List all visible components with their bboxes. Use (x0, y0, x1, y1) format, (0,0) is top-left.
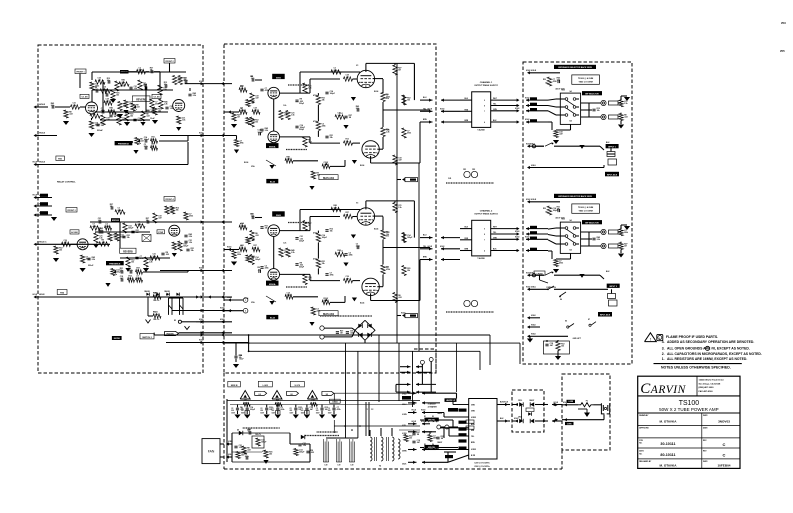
svg-text:U-970: U-970 (295, 385, 301, 387)
svg-text:2.2k: 2.2k (149, 262, 153, 264)
svg-text:C2: C2 (241, 408, 243, 410)
svg-text:33k: 33k (241, 455, 244, 457)
svg-text:220k: 220k (237, 254, 241, 256)
svg-text:NO.: NO. (639, 453, 643, 455)
svg-text:1.5k: 1.5k (398, 207, 402, 209)
svg-text:15k: 15k (545, 212, 548, 214)
svg-text:220: 220 (260, 410, 263, 412)
svg-text:NO.: NO. (639, 443, 643, 445)
svg-text:12340 World Trade Drive: 12340 World Trade Drive (699, 379, 725, 382)
svg-text:CHANNEL 2: CHANNEL 2 (480, 210, 493, 213)
svg-text:HOLE: HOLE (227, 297, 231, 299)
svg-text:6.3V: 6.3V (324, 465, 327, 467)
svg-text:6 BLU: 6 BLU (402, 404, 406, 406)
svg-text:1.5k: 1.5k (303, 445, 307, 447)
svg-text:CARVIN: CARVIN (640, 381, 686, 397)
svg-text:100pF: 100pF (330, 93, 336, 95)
svg-text:9: 9 (484, 100, 485, 102)
svg-text:FLAME PROOF IF USED PARTS.: FLAME PROOF IF USED PARTS. (666, 335, 718, 339)
svg-text:1.5k: 1.5k (291, 115, 295, 117)
svg-text:220: 220 (301, 410, 304, 412)
svg-text:S4: S4 (569, 120, 571, 123)
svg-text:FRONT 3: FRONT 3 (67, 210, 75, 212)
svg-text:100pF: 100pF (299, 452, 305, 454)
svg-text:C2: C2 (301, 408, 303, 410)
svg-text:ALL RESISTORS ARE 16MW, EXCEPT: ALL RESISTORS ARE 16MW, EXCEPT AS NOTED. (667, 357, 747, 361)
svg-text:EL34: EL34 (244, 161, 248, 164)
svg-text:HOLE: HOLE (227, 247, 231, 249)
svg-text:HOLE: HOLE (504, 402, 508, 404)
svg-text:100k 1%: 100k 1% (153, 319, 160, 321)
svg-text:220pF: 220pF (299, 129, 304, 131)
svg-text:33k: 33k (191, 250, 194, 252)
svg-text:HOLE: HOLE (39, 133, 46, 135)
svg-text:R50: R50 (543, 208, 546, 210)
svg-text:HOLE C: HOLE C (39, 241, 47, 243)
svg-text:100pF: 100pF (250, 409, 256, 411)
svg-text:8: 8 (484, 106, 485, 108)
svg-text:IMPEDANCE SELECTOR BACK VIEW: IMPEDANCE SELECTOR BACK VIEW (558, 195, 592, 198)
svg-text:6 BRN: 6 BRN (402, 451, 407, 453)
svg-text:220: 220 (328, 410, 331, 412)
svg-text:10k: 10k (409, 438, 412, 440)
svg-text:APPROVED: APPROVED (639, 427, 649, 430)
svg-text:5965: 5965 (276, 215, 282, 217)
svg-text:33k: 33k (330, 137, 333, 139)
svg-text:DRAWN BY: DRAWN BY (639, 414, 649, 417)
svg-text:220pF: 220pF (299, 267, 304, 269)
svg-text:10k: 10k (59, 250, 62, 252)
svg-text:100pF: 100pF (261, 442, 267, 444)
svg-text:ALL CAPACITORS IN MICROFARADS,: ALL CAPACITORS IN MICROFARADS, EXCEPT AS… (667, 352, 762, 356)
svg-text:HOLE: HOLE (421, 421, 425, 423)
svg-text:San Diego, CA 92128: San Diego, CA 92128 (699, 382, 721, 385)
svg-text:6 BLK: 6 BLK (531, 70, 537, 72)
svg-text:L-905: L-905 (263, 385, 269, 387)
svg-text:100k TL: 100k TL (255, 434, 261, 436)
svg-text:TS50: TS50 (561, 219, 565, 221)
svg-text:CR1: CR1 (463, 169, 466, 171)
svg-text:1.5k: 1.5k (182, 120, 186, 122)
svg-text:POW: POW (158, 232, 163, 234)
svg-text:GRN YEL: GRN YEL (428, 447, 435, 449)
svg-text:HOLE: HOLE (33, 294, 37, 296)
svg-text:V3: V3 (356, 65, 358, 67)
svg-text:HOLE: HOLE (199, 340, 203, 342)
svg-text:C26: C26 (247, 430, 250, 432)
svg-text:10k: 10k (330, 231, 333, 233)
svg-text:#53: #53 (781, 21, 786, 25)
svg-text:6 PUSH: 6 PUSH (536, 273, 543, 275)
svg-text:TS100 @ 4 OHM: TS100 @ 4 OHM (578, 206, 594, 209)
svg-text:6.3V: 6.3V (337, 465, 340, 467)
svg-text:CHANNEL 1: CHANNEL 1 (480, 81, 493, 84)
svg-text:470k: 470k (313, 94, 317, 97)
svg-text:GN03: GN03 (332, 401, 338, 403)
svg-text:6 GRN: 6 GRN (567, 423, 572, 425)
svg-text:HOLE: HOLE (220, 308, 224, 310)
svg-text:2.2k: 2.2k (265, 130, 269, 132)
svg-text:HOLE: HOLE (412, 410, 416, 412)
svg-text:R58: R58 (386, 232, 389, 234)
svg-text:100pF: 100pF (183, 246, 189, 248)
svg-text:INPUT 1: INPUT 1 (608, 147, 617, 149)
svg-text:1.: 1. (662, 357, 665, 361)
svg-text:M. OTAVKA: M. OTAVKA (660, 464, 678, 468)
svg-text:220k: 220k (265, 268, 269, 270)
svg-text:10k: 10k (131, 262, 134, 264)
svg-text:CH1: CH1 (448, 178, 451, 180)
svg-text:RELAY CONTROL: RELAY CONTROL (57, 181, 76, 184)
svg-text:7: 7 (484, 239, 485, 241)
svg-text:HOLE: HOLE (440, 246, 444, 248)
svg-text:R49: R49 (153, 292, 156, 295)
svg-text:.047: .047 (255, 97, 259, 100)
svg-text:GRN YEL: GRN YEL (428, 420, 435, 422)
svg-text:220k: 220k (280, 409, 284, 411)
svg-text:10k: 10k (255, 122, 258, 124)
svg-text:6550A: 6550A (269, 283, 276, 286)
svg-text:HOLE: HOLE (440, 109, 444, 111)
svg-text:F1: F1 (586, 400, 588, 402)
svg-text:C2: C2 (272, 408, 274, 410)
svg-text:470k: 470k (386, 268, 390, 271)
svg-text:.022: .022 (398, 297, 402, 299)
svg-text:8: 8 (484, 234, 485, 236)
svg-text:HEATER W: HEATER W (446, 399, 455, 402)
svg-text:NOTES UNLESS OTHERWISE SPECIFI: NOTES UNLESS OTHERWISE SPECIFIED. (661, 366, 731, 370)
svg-text:YEL: YEL (493, 104, 496, 106)
svg-text:30-10111: 30-10111 (660, 442, 675, 446)
svg-text:1.5k: 1.5k (170, 108, 174, 110)
svg-text:50W X 2 TUBE POWER AMP: 50W X 2 TUBE POWER AMP (659, 407, 718, 412)
svg-text:TS50: TS50 (561, 90, 565, 92)
svg-text:EL34: EL34 (360, 302, 364, 305)
svg-text:3.: 3. (662, 347, 665, 351)
svg-text:6 RED: 6 RED (471, 417, 477, 419)
svg-text:470k: 470k (330, 274, 334, 277)
svg-text:6 GRN: 6 GRN (402, 414, 407, 416)
svg-text:S4: S4 (569, 90, 571, 93)
svg-text:C1.5S: C1.5S (153, 97, 160, 99)
svg-text:EL34: EL34 (270, 181, 276, 184)
svg-text:HOLE: HOLE (526, 70, 530, 72)
svg-text:220k: 220k (322, 126, 326, 128)
svg-text:HOLE: HOLE (525, 97, 529, 99)
svg-text:470k: 470k (407, 132, 411, 135)
svg-text:6 BLK: 6 BLK (530, 273, 536, 275)
svg-text:HOLE: HOLE (199, 319, 203, 321)
svg-text:2.2k: 2.2k (386, 132, 390, 134)
svg-text:470k: 470k (265, 89, 269, 92)
svg-text:10FEB04: 10FEB04 (717, 464, 730, 468)
svg-text:1.5k: 1.5k (189, 242, 193, 244)
svg-text:T-A2058: T-A2058 (477, 128, 484, 131)
svg-text:EL34: EL34 (270, 317, 276, 320)
svg-text:.047: .047 (398, 159, 402, 162)
svg-text:.022: .022 (166, 254, 170, 256)
svg-text:220pF: 220pF (299, 241, 304, 243)
svg-text:6550A: 6550A (269, 145, 276, 148)
svg-text:BIAS ADJ: BIAS ADJ (323, 177, 335, 180)
svg-text:2: 2 (245, 311, 246, 313)
svg-text:TS100 @ 4 OHM: TS100 @ 4 OHM (578, 77, 594, 80)
svg-text:33k: 33k (130, 116, 133, 118)
svg-text:.022: .022 (311, 452, 315, 454)
svg-text:1: 1 (245, 300, 246, 302)
svg-text:ADDED AS SECONDARY OPERATION A: ADDED AS SECONDARY OPERATION ARE DENOTED… (667, 340, 754, 344)
svg-text:230V @ 1% 50THz: 230V @ 1% 50THz (474, 466, 489, 468)
svg-text:HOLE: HOLE (33, 195, 37, 197)
svg-text:OUTPUT TRANS 30-WXYZ: OUTPUT TRANS 30-WXYZ (474, 213, 498, 216)
svg-text:M. OTAVKA: M. OTAVKA (660, 420, 678, 424)
svg-text:R66: R66 (240, 224, 243, 226)
svg-text:2.2k: 2.2k (193, 95, 197, 97)
svg-text:INPUT 2: INPUT 2 (609, 286, 618, 288)
svg-text:1.2k: 1.2k (283, 243, 286, 245)
svg-text:PRESENCE: PRESENCE (118, 144, 130, 146)
svg-text:33k: 33k (269, 454, 272, 456)
svg-text:MODE: MODE (114, 338, 121, 340)
svg-text:HOLE: HOLE (421, 410, 425, 412)
svg-text:6 BLU: 6 BLU (531, 287, 537, 289)
svg-text:CR2: CR2 (472, 169, 475, 171)
svg-text:220uF: 220uF (97, 130, 104, 132)
svg-text:220: 220 (290, 410, 293, 412)
svg-text:C2: C2 (260, 408, 262, 410)
svg-text:HOLE: HOLE (525, 119, 529, 121)
svg-text:!: ! (650, 338, 651, 342)
svg-text:REVERB: REVERB (136, 99, 146, 102)
svg-text:D9: D9 (237, 430, 239, 432)
svg-text:R66: R66 (240, 86, 243, 88)
svg-text:10k: 10k (561, 346, 564, 348)
svg-text:SWITCH 2: SWITCH 2 (142, 337, 152, 339)
svg-text:HOLE: HOLE (515, 231, 519, 233)
svg-text:INPUT JACK: INPUT JACK (600, 314, 611, 317)
svg-text:U2: U2 (290, 394, 292, 396)
svg-text:IMP SELECTOR: IMP SELECTOR (585, 94, 599, 96)
svg-text:C2: C2 (290, 408, 292, 410)
svg-text:R50: R50 (543, 79, 546, 81)
svg-text:.022: .022 (255, 235, 259, 237)
svg-text:HOLE: HOLE (199, 133, 203, 135)
svg-text:S4: S4 (569, 249, 571, 252)
svg-text:R51: R51 (153, 312, 156, 314)
svg-text:EL34: EL34 (374, 90, 378, 93)
svg-text:.047: .047 (550, 344, 554, 347)
svg-text:470k: 470k (313, 232, 317, 235)
svg-text:1.5k: 1.5k (624, 103, 628, 105)
svg-text:A-1000: A-1000 (71, 231, 78, 234)
svg-text:FRONT 1: FRONT 1 (76, 72, 84, 74)
svg-text:220: 220 (316, 410, 319, 412)
svg-text:REVERB: REVERB (123, 252, 133, 254)
svg-text:C2: C2 (328, 408, 330, 410)
svg-text:HOLE: HOLE (526, 199, 530, 201)
svg-text:.047: .047 (310, 408, 314, 411)
svg-text:HOLE: HOLE (199, 268, 203, 270)
svg-text:EL34: EL34 (360, 164, 364, 167)
svg-text:S7: S7 (588, 319, 590, 321)
svg-text:HOLE: HOLE (525, 237, 529, 239)
svg-text:C1.5S: C1.5S (81, 97, 88, 99)
svg-text:C41: C41 (250, 75, 253, 78)
svg-text:GND LIFT: GND LIFT (573, 338, 582, 340)
svg-text:S4: S4 (569, 219, 571, 222)
svg-text:470k: 470k (313, 258, 317, 261)
svg-text:S6: S6 (560, 299, 562, 301)
svg-text:100pF: 100pF (255, 259, 261, 261)
svg-text:#55: #55 (780, 49, 785, 53)
svg-text:HOLE: HOLE (220, 319, 224, 321)
svg-text:220: 220 (241, 410, 244, 412)
svg-text:C41: C41 (250, 213, 253, 216)
svg-text:PRESENCE: PRESENCE (109, 264, 121, 266)
svg-text:2.2k: 2.2k (291, 252, 295, 254)
svg-text:TS50 @ 8 OHM: TS50 @ 8 OHM (579, 211, 594, 213)
svg-text:HOLE: HOLE (39, 104, 46, 106)
svg-text:6 BLU: 6 BLU (531, 165, 537, 167)
svg-text:100uF: 100uF (239, 359, 244, 361)
svg-text:3NOV03: 3NOV03 (718, 420, 730, 424)
svg-text:C: C (723, 453, 726, 458)
svg-text:10k: 10k (407, 100, 410, 102)
svg-text:33k: 33k (116, 95, 119, 97)
svg-text:120V @ 1% 60THz: 120V @ 1% 60THz (474, 463, 489, 465)
svg-text:.022: .022 (308, 142, 312, 144)
svg-text:.022: .022 (317, 175, 321, 177)
svg-text:HOLE: HOLE (526, 287, 530, 289)
svg-text:6 BLK: 6 BLK (530, 144, 536, 146)
svg-text:FRONT 4: FRONT 4 (165, 198, 174, 201)
svg-text:SIDE B: SIDE B (231, 385, 238, 387)
svg-text:C44: C44 (239, 354, 242, 357)
svg-text:.022: .022 (140, 141, 144, 143)
svg-text:E2: E2 (174, 320, 176, 322)
svg-text:220: 220 (272, 410, 275, 412)
svg-text:7: 7 (484, 111, 485, 113)
svg-text:33k: 33k (407, 270, 410, 272)
svg-text:BIAS ADJ: BIAS ADJ (323, 313, 335, 316)
svg-text:1.5k: 1.5k (308, 88, 312, 90)
svg-text:T-A2058: T-A2058 (477, 257, 484, 260)
svg-text:EL34: EL34 (374, 228, 378, 231)
svg-text:.022: .022 (247, 450, 251, 452)
svg-text:V3: V3 (356, 203, 358, 205)
svg-text:220: 220 (231, 410, 234, 412)
svg-text:HOLE: HOLE (514, 418, 518, 420)
svg-text:.047: .047 (417, 441, 421, 444)
svg-text:100k 1%: 100k 1% (153, 300, 160, 302)
svg-text:.022: .022 (146, 116, 150, 118)
svg-text:.047: .047 (308, 278, 312, 281)
svg-text:U2: U2 (326, 394, 328, 396)
svg-text:470k: 470k (240, 142, 244, 145)
svg-text:YEL: YEL (493, 232, 496, 234)
svg-text:C2: C2 (231, 408, 233, 410)
svg-text:FAX 487-8160: FAX 487-8160 (699, 390, 714, 393)
svg-text:9: 9 (484, 229, 485, 231)
svg-text:220uF: 220uF (88, 265, 94, 267)
svg-text:HOLE: HOLE (39, 162, 46, 164)
svg-text:U2: U2 (259, 394, 261, 396)
svg-text:HOLE: HOLE (412, 421, 416, 423)
svg-text:100pF: 100pF (322, 237, 328, 239)
svg-text:2.2k: 2.2k (597, 239, 601, 241)
svg-text:2.2k: 2.2k (92, 259, 96, 261)
svg-text:2.2k: 2.2k (189, 236, 193, 238)
svg-text:6 RED: 6 RED (471, 449, 477, 451)
svg-text:10k: 10k (176, 210, 179, 212)
svg-text:2.2k: 2.2k (164, 104, 168, 106)
svg-text:HOLE: HOLE (515, 237, 519, 239)
svg-text:C: C (723, 442, 726, 447)
svg-text:100pF: 100pF (128, 228, 134, 230)
svg-text:OUTPUT TRANS 30-WXYZ: OUTPUT TRANS 30-WXYZ (474, 84, 498, 87)
svg-text:.022: .022 (69, 114, 73, 116)
svg-text:5965: 5965 (276, 77, 282, 79)
svg-text:10uF: 10uF (150, 118, 155, 120)
svg-text:CR10: CR10 (518, 400, 522, 402)
svg-text:6.3V: 6.3V (350, 465, 353, 467)
svg-text:TS50 @ 8 OHM: TS50 @ 8 OHM (579, 82, 594, 84)
svg-text:HOLE: HOLE (33, 162, 37, 164)
svg-text:F2: F2 (371, 409, 373, 411)
svg-text:220k: 220k (624, 232, 628, 234)
svg-text:470k: 470k (337, 408, 341, 411)
svg-text:2.: 2. (662, 352, 665, 356)
svg-text:220pF: 220pF (299, 103, 304, 105)
svg-text:.047: .047 (559, 133, 563, 136)
svg-text:1.5k: 1.5k (239, 447, 243, 449)
svg-text:100pF: 100pF (407, 237, 413, 239)
svg-text:IMPEDANCE SELECTOR BACK VIEW: IMPEDANCE SELECTOR BACK VIEW (558, 66, 592, 69)
svg-text:470k: 470k (189, 215, 193, 218)
svg-text:RELEASED BY: RELEASED BY (639, 460, 652, 463)
svg-text:33k: 33k (265, 228, 268, 230)
svg-text:IMP SELECTOR: IMP SELECTOR (585, 223, 599, 225)
svg-text:80-10111: 80-10111 (660, 453, 675, 457)
svg-text:1.2k: 1.2k (283, 105, 286, 107)
svg-text:FRONT 2: FRONT 2 (165, 61, 173, 63)
svg-text:33k: 33k (127, 237, 130, 239)
svg-text:220k: 220k (349, 255, 353, 257)
svg-text:HOLE: HOLE (515, 108, 519, 110)
svg-text:10k: 10k (597, 110, 600, 112)
svg-text:470k: 470k (313, 120, 317, 123)
svg-text:6 GRN: 6 GRN (569, 401, 574, 403)
svg-text:33k: 33k (322, 100, 325, 102)
svg-text:ASSY.: ASSY. (639, 450, 644, 453)
svg-text:6 BLK: 6 BLK (531, 199, 537, 201)
svg-text:.022: .022 (624, 117, 628, 119)
svg-text:& HEATER: & HEATER (428, 405, 438, 408)
svg-text:R58: R58 (386, 94, 389, 96)
svg-text:C2: C2 (316, 408, 318, 410)
svg-text:FAN: FAN (208, 450, 215, 454)
svg-text:.022: .022 (136, 107, 140, 109)
svg-text:(858) 487-1600: (858) 487-1600 (699, 386, 715, 389)
svg-text:4.: 4. (662, 340, 665, 344)
svg-text:INPUT JACK: INPUT JACK (607, 174, 618, 177)
svg-text:YEL: YEL (471, 436, 474, 438)
svg-text:HOLE: HOLE (199, 81, 203, 83)
svg-text:S5: S5 (565, 321, 567, 323)
svg-text:33k: 33k (322, 263, 325, 265)
svg-text:HOLE: HOLE (39, 294, 45, 296)
svg-text:15k: 15k (545, 83, 548, 85)
